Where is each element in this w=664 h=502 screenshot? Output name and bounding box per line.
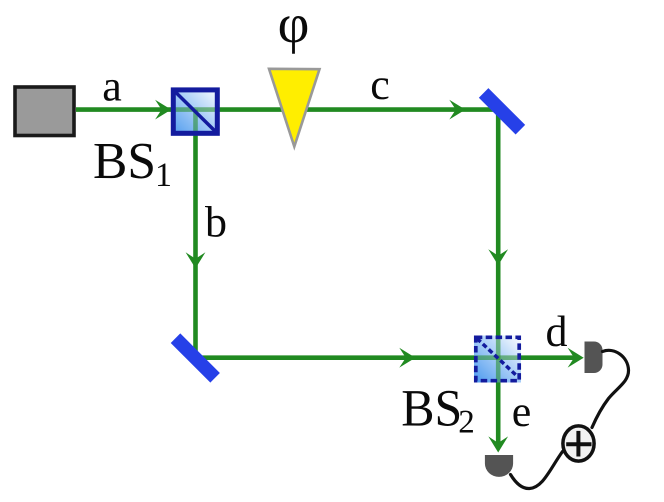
arrow on beam b <box>186 252 206 268</box>
beam splitter BS1 <box>171 88 220 136</box>
svg-text:a: a <box>102 62 122 111</box>
arrow on beam a <box>155 100 171 120</box>
wire bottom beam (mirror M2 to BS2) <box>196 355 499 360</box>
source box <box>15 87 74 136</box>
svg-text:BS: BS <box>93 133 156 190</box>
arrow on bottom beam <box>399 348 415 368</box>
arrow on beam e <box>488 436 508 452</box>
svg-text:BS: BS <box>401 380 462 438</box>
arrow on right vertical beam <box>488 249 508 265</box>
phase shifter (yellow wedge) <box>269 69 320 147</box>
svg-text:d: d <box>546 307 568 356</box>
beam splitter BS2 (dashed) <box>474 336 521 383</box>
mirror M1 <box>479 88 525 134</box>
wire beam d (BS2 to detector D1) <box>498 355 578 360</box>
detector D2 <box>485 455 513 477</box>
svg-text:φ: φ <box>278 0 310 54</box>
cable from detector D2 to correlator <box>511 452 563 489</box>
cable from detector D1 to correlator <box>592 350 629 427</box>
wire beam mirror M1 down to BS2 <box>496 110 501 383</box>
arrow on beam c <box>449 100 465 120</box>
svg-text:2: 2 <box>458 405 475 441</box>
detector D1 <box>585 342 603 374</box>
svg-text:e: e <box>512 387 532 436</box>
wire beam b (BS1 down to mirror M2) <box>193 110 198 358</box>
wire beam a/c (source through BS1 to mirror M1) <box>76 107 498 112</box>
svg-text:c: c <box>370 60 390 109</box>
arrow on beam d <box>568 348 584 368</box>
mirror M2 <box>171 333 220 382</box>
svg-text:1: 1 <box>155 157 172 194</box>
correlator (plus circle) <box>563 426 594 461</box>
svg-text:b: b <box>205 198 227 247</box>
wire beam e (BS2 down to detector D2) <box>496 383 501 447</box>
